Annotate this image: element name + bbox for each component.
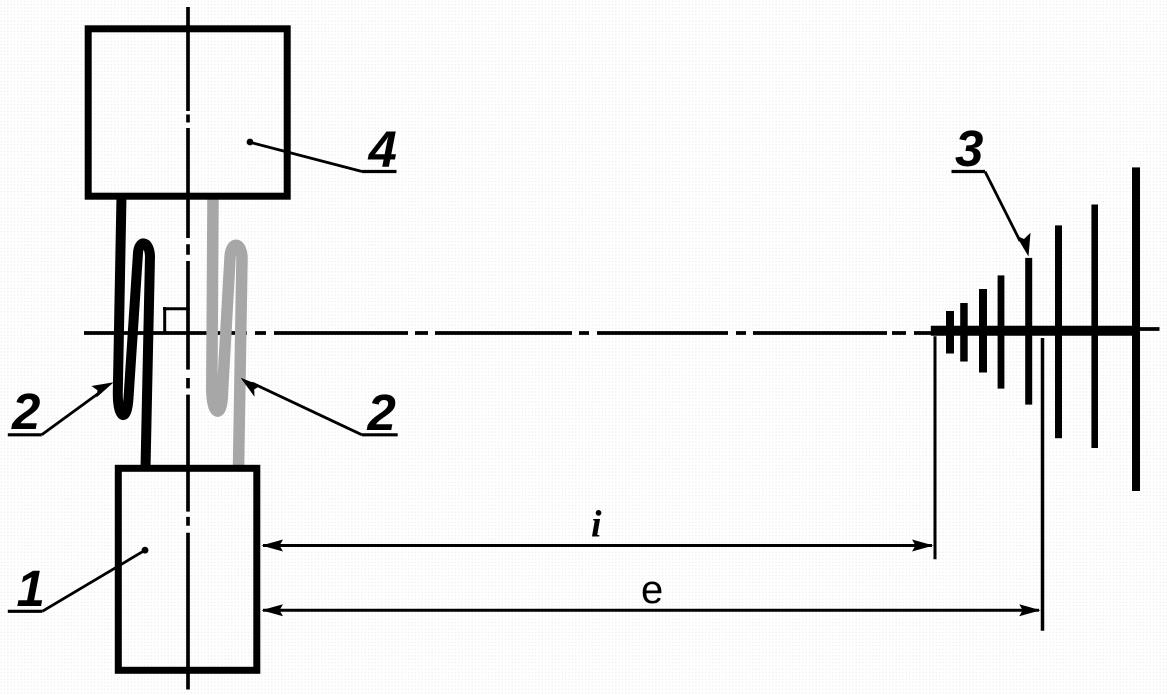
leader arrow for right label 2: [241, 378, 398, 435]
antenna element 7: [1091, 205, 1098, 449]
leader for label 4 (dot inside box 4): [247, 139, 397, 172]
right-angle (perpendicularity) marker square: [163, 307, 190, 335]
antenna 3: boom: [931, 326, 1140, 336]
svg-text:2: 2: [367, 384, 396, 441]
coiled cable 2 (black, left): [118, 196, 150, 468]
svg-text:2: 2: [11, 383, 40, 440]
leader for label 1 (dot inside box 1): [8, 547, 149, 612]
svg-text:3: 3: [955, 120, 983, 177]
antenna element 2: [960, 303, 968, 362]
antenna element 3: [979, 289, 987, 373]
dimension line i: [262, 540, 934, 552]
vertical centerline (dash-dot axis through boxes): [186, 7, 190, 690]
leader arrow for left label 2: [8, 382, 114, 435]
horizontal centerline (dash-dot axis to antenna): [84, 329, 1160, 333]
leader arrow for label 3: [952, 172, 1031, 257]
box 4 (upper device): [88, 29, 287, 196]
svg-text:i: i: [591, 504, 602, 546]
svg-text:e: e: [641, 568, 663, 612]
antenna element 8: [1132, 167, 1140, 491]
antenna element 4: [998, 275, 1005, 388]
svg-text:4: 4: [368, 121, 397, 178]
svg-text:1: 1: [17, 560, 45, 617]
coiled cable 2 (gray, right): [212, 196, 242, 468]
extension line for dimension e (antenna reference): [1041, 338, 1045, 631]
antenna element 6: [1055, 225, 1062, 438]
antenna element 5: [1025, 258, 1032, 405]
dimension line e: [262, 604, 1041, 616]
extension line for dimension i (antenna front): [934, 336, 937, 559]
antenna element 1: [946, 311, 954, 354]
box 1 (lower device): [118, 468, 256, 670]
